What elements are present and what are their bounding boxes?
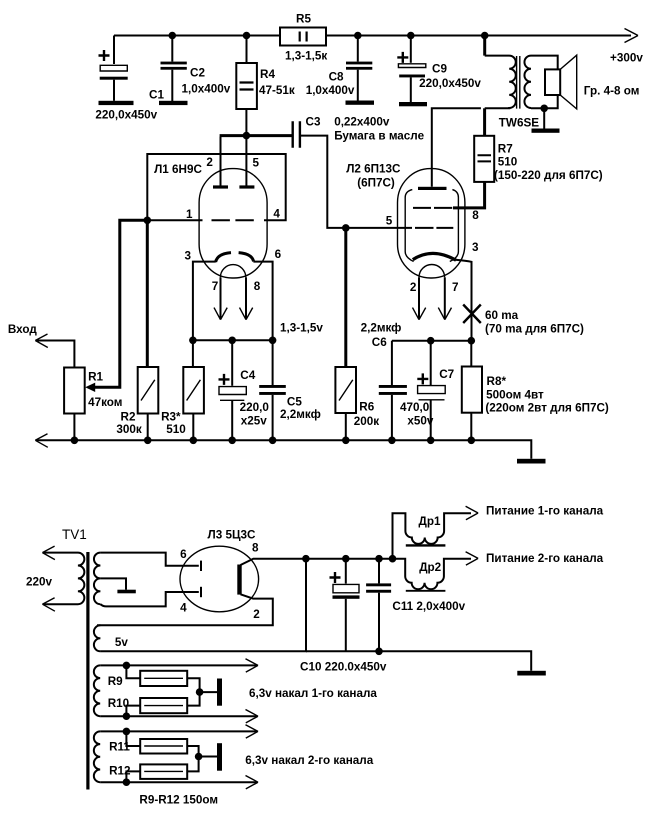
heater pin 7 arrow (Л2) bbox=[444, 277, 446, 318]
choke Др2 core bbox=[406, 590, 446, 592]
svg-text:R6: R6 bbox=[359, 401, 374, 414]
svg-text:x25v: x25v bbox=[241, 415, 268, 428]
node: bus / C7 bbox=[427, 337, 435, 345]
ground (C8) bbox=[346, 101, 375, 105]
svg-text:6: 6 bbox=[275, 248, 282, 261]
transformer TV1 heater winding 2 bbox=[94, 731, 100, 782]
ground (C9) bbox=[399, 102, 427, 106]
capacitor C2 bbox=[171, 36, 173, 62]
svg-text:7: 7 bbox=[212, 280, 219, 293]
node: lower rail / C11 bbox=[375, 648, 383, 656]
node: rail / C4 bbox=[228, 437, 236, 445]
svg-text:R2: R2 bbox=[121, 411, 136, 424]
node: bus / chokes bbox=[389, 555, 397, 563]
capacitor C3 bbox=[220, 134, 292, 137]
wire: heater1 top bbox=[100, 664, 257, 666]
svg-text:2: 2 bbox=[410, 281, 417, 294]
svg-text:470,0: 470,0 bbox=[400, 401, 430, 414]
resistor R5 bbox=[280, 28, 326, 46]
node: rail / R6 bbox=[342, 437, 350, 445]
svg-text:R5: R5 bbox=[296, 12, 311, 25]
svg-text:C11 2,0x400v: C11 2,0x400v bbox=[392, 600, 465, 613]
wire: HV top to pin 6 bbox=[100, 553, 198, 566]
svg-text:С6: С6 bbox=[372, 336, 387, 349]
capacitor C8 bbox=[357, 36, 359, 62]
svg-text:220v: 220v bbox=[26, 576, 53, 589]
capacitor C7 bbox=[430, 341, 432, 386]
ground (speaker) bbox=[532, 129, 560, 133]
tube U2: Л2 6П13С envelope bbox=[398, 169, 465, 278]
wire: cathode bus of Л2 bbox=[392, 340, 472, 342]
svg-text:Л1 6Н9С: Л1 6Н9С bbox=[154, 163, 202, 176]
arrow: Питание 2-го канала bbox=[466, 552, 479, 565]
choke Др1 bbox=[393, 513, 472, 558]
svg-text:R12: R12 bbox=[109, 765, 131, 778]
beam plate left (Л2) bbox=[405, 190, 413, 262]
node: bus / C11 bbox=[375, 555, 383, 563]
speaker Гр. 4-8 ом bbox=[545, 69, 560, 95]
input arrow bbox=[35, 334, 48, 348]
heater pin 7 arrow bbox=[220, 277, 222, 318]
svg-text:8: 8 bbox=[472, 209, 479, 222]
cathode left (Л1) bbox=[216, 253, 231, 262]
wire: secondary top to speaker bbox=[531, 56, 558, 70]
resistor R2 bbox=[146, 220, 149, 367]
svg-text:1,3-1,5v: 1,3-1,5v bbox=[280, 322, 323, 335]
wire: pin 1 grid bbox=[147, 219, 202, 221]
node: heater1 top / R9 bbox=[123, 662, 131, 670]
svg-text:Др1: Др1 bbox=[419, 515, 441, 528]
heater pin 8 arrow bbox=[245, 277, 247, 318]
primary arrow top bbox=[42, 546, 55, 560]
svg-text:2,2мкф: 2,2мкф bbox=[280, 408, 321, 421]
svg-text:5v: 5v bbox=[115, 636, 129, 649]
svg-text:C2: C2 bbox=[190, 66, 205, 79]
transformer TV1 core bbox=[86, 552, 89, 790]
node: R4 / anode wire bbox=[243, 132, 251, 140]
tube U1: Л1 6Н9С envelope bbox=[199, 169, 267, 278]
primary arrow bottom bbox=[42, 598, 55, 612]
svg-text:6: 6 bbox=[180, 548, 187, 561]
resistor R10 bbox=[126, 706, 140, 717]
svg-text:6,3v накал 2-го канала: 6,3v накал 2-го канала bbox=[245, 754, 373, 767]
HV winding center tap bbox=[100, 578, 126, 589]
svg-text:3: 3 bbox=[185, 249, 192, 262]
R1 wiper arrow wire bbox=[94, 220, 145, 387]
capacitor C10 bbox=[345, 559, 347, 584]
svg-text:1: 1 bbox=[186, 208, 193, 221]
ground (lower rail) bbox=[517, 671, 546, 676]
wire: R11/R12 join to chassis bbox=[187, 746, 217, 771]
wire: R9/R10 join to chassis bbox=[187, 678, 217, 705]
node: top rail / R4 bbox=[243, 32, 251, 40]
cathode (Л2) bbox=[413, 253, 456, 260]
svg-text:200к: 200к bbox=[354, 415, 380, 428]
screen grid dashes pin 8 (Л2) bbox=[413, 207, 452, 209]
transformer TV1 primary 220v winding bbox=[44, 553, 85, 605]
wire: anode of Л2 to transformer bbox=[432, 108, 481, 187]
wire: heater2 top bbox=[100, 730, 257, 732]
transformer TW6SE primary winding bbox=[483, 36, 486, 56]
transformer TV1 HV secondary winding bbox=[94, 553, 100, 605]
svg-text:500ом 4вт: 500ом 4вт bbox=[486, 388, 544, 401]
resistor R3 bbox=[192, 340, 194, 367]
svg-text:R9: R9 bbox=[108, 675, 123, 688]
node: rail / R1 bbox=[71, 437, 79, 445]
svg-text:R1: R1 bbox=[88, 370, 103, 383]
svg-text:8: 8 bbox=[252, 542, 259, 555]
svg-text:7: 7 bbox=[452, 281, 459, 294]
wire: heater2 bottom bbox=[100, 781, 257, 783]
svg-text:R7: R7 bbox=[498, 142, 513, 155]
svg-text:510: 510 bbox=[166, 423, 186, 436]
choke Др2 bbox=[393, 559, 472, 590]
svg-text:4: 4 bbox=[180, 602, 187, 615]
heater dome (Л2) bbox=[419, 264, 445, 277]
wire: 5v bottom to HV bus bbox=[100, 562, 306, 651]
capacitor C5 bbox=[272, 340, 274, 385]
resistor R8 bbox=[470, 341, 472, 367]
svg-text:C10 220.0x450v: C10 220.0x450v bbox=[300, 661, 387, 674]
node: rail / R8 bbox=[468, 437, 476, 445]
+300v supply arrow bbox=[625, 29, 639, 43]
svg-text:Вход: Вход bbox=[8, 323, 37, 336]
wire: pin 3 cathode bbox=[193, 262, 216, 341]
capacitor C9 bbox=[410, 36, 412, 63]
arrow: Питание 1-го канала bbox=[466, 506, 479, 519]
node: rail / C5 bbox=[269, 437, 277, 445]
svg-text:R10: R10 bbox=[108, 697, 130, 710]
node: rail / R3 bbox=[190, 437, 198, 445]
svg-text:R3*: R3* bbox=[161, 411, 181, 424]
svg-text:300к: 300к bbox=[116, 423, 142, 436]
svg-text:1,3-1,5к: 1,3-1,5к bbox=[285, 50, 327, 63]
wire: pin 8 cathode to bus bbox=[241, 559, 393, 565]
cathode bar (Л3) bbox=[237, 565, 241, 595]
svg-text:R8*: R8* bbox=[487, 375, 507, 388]
svg-text:TW6SE: TW6SE bbox=[499, 117, 539, 130]
svg-text:6,3v накал 1-го канала: 6,3v накал 1-го канала bbox=[249, 687, 377, 700]
wire: pin 3 cathode of Л2 bbox=[456, 260, 472, 341]
node: secondary bottom / ground bbox=[540, 105, 548, 113]
svg-text:Л3 5Ц3С: Л3 5Ц3С bbox=[208, 528, 256, 541]
svg-text:4: 4 bbox=[273, 208, 280, 221]
capacitor C4 bbox=[231, 340, 233, 386]
anode lead pin 2 (Л1) bbox=[220, 137, 222, 187]
chassis bar (heater 2) bbox=[217, 743, 222, 771]
wire: upper ground rail bbox=[37, 440, 532, 459]
svg-text:5: 5 bbox=[386, 214, 393, 227]
wire: pin 6 cathode bbox=[253, 262, 272, 341]
svg-text:C8: C8 bbox=[329, 70, 344, 83]
heater pin 2 arrow (Л2) bbox=[418, 277, 420, 318]
capacitor C11 bbox=[378, 559, 380, 584]
heater dome (Л1) bbox=[220, 265, 245, 278]
wire: HV bottom to pin 4 bbox=[100, 592, 198, 606]
svg-text:Др2: Др2 bbox=[419, 561, 441, 574]
node: rail / R2 bbox=[144, 437, 152, 445]
capacitor C6 bbox=[391, 341, 393, 385]
svg-text:1,0x400v: 1,0x400v bbox=[182, 82, 231, 95]
wire: grid tie pins 1-4 over tube bbox=[147, 154, 285, 220]
svg-text:5: 5 bbox=[253, 157, 260, 170]
beam plate right (Л2) bbox=[450, 190, 459, 262]
svg-text:Л2 6П13С: Л2 6П13С bbox=[346, 163, 401, 176]
svg-text:+300v: +300v bbox=[610, 52, 643, 65]
svg-text:47-51к: 47-51к bbox=[259, 84, 295, 97]
transformer TV1 heater winding 1 bbox=[94, 665, 100, 716]
cathode right (Л1) bbox=[239, 253, 254, 262]
resistor R6 bbox=[344, 228, 347, 367]
svg-text:C5: C5 bbox=[287, 395, 302, 408]
node: heater2 bottom / R12 bbox=[123, 778, 131, 786]
chassis bar (heater 1) bbox=[217, 679, 222, 706]
node: grid of Л2 / R6 bbox=[342, 224, 350, 232]
svg-text:(6П7С): (6П7С) bbox=[357, 177, 395, 190]
svg-text:R11: R11 bbox=[109, 741, 130, 754]
node: rail / C6 bbox=[388, 437, 396, 445]
node: top rail / C8 bbox=[354, 32, 362, 40]
svg-text:8: 8 bbox=[254, 280, 261, 293]
svg-text:С7: С7 bbox=[439, 368, 454, 381]
transformer TV1 5v winding bbox=[94, 625, 101, 651]
svg-text:510: 510 bbox=[498, 155, 518, 168]
svg-text:3: 3 bbox=[472, 241, 479, 254]
anode plate pin 4 (Л3) bbox=[200, 587, 202, 597]
svg-text:60 ma: 60 ma bbox=[485, 309, 519, 322]
node: heater1 bottom / R10 bbox=[123, 712, 131, 720]
transformer TW6SE secondary winding bbox=[524, 56, 531, 108]
svg-text:Гр. 4-8 ом: Гр. 4-8 ом bbox=[584, 85, 640, 98]
svg-text:Питание 1-го канала: Питание 1-го канала bbox=[486, 505, 604, 518]
svg-text:C3: C3 bbox=[306, 116, 321, 129]
current marker X 60 ma bbox=[463, 305, 481, 324]
ground (upper rail) bbox=[517, 459, 546, 464]
wire: C3 to grid of Л2 bbox=[301, 136, 412, 228]
transformer TW6SE core bbox=[517, 56, 520, 109]
capacitor C1 bbox=[113, 36, 115, 65]
node: bus / R8 bbox=[468, 337, 476, 345]
svg-text:Бумага в масле: Бумага в масле bbox=[334, 129, 424, 142]
wire: lower ground rail bbox=[306, 651, 531, 671]
wire: +300v top rail bbox=[114, 35, 631, 37]
potentiometer R1 bbox=[64, 368, 85, 414]
anode plates (Л1) bbox=[213, 185, 228, 188]
wire: cathode bus of Л1 bbox=[193, 339, 273, 341]
svg-text:(70 ma для 6П7С): (70 ma для 6П7С) bbox=[485, 322, 584, 335]
ground rail arrow bbox=[35, 434, 48, 448]
svg-text:2: 2 bbox=[253, 608, 260, 621]
ground (center tap) bbox=[117, 590, 135, 594]
wire: input to R1 bbox=[37, 341, 75, 368]
node: bus / C10 bbox=[342, 555, 350, 563]
choke Др1 core bbox=[406, 544, 446, 546]
resistor R11 bbox=[126, 731, 140, 746]
node: top rail / C2 bbox=[169, 32, 177, 40]
resistor R9 bbox=[126, 665, 140, 678]
node: R11/R12 bbox=[195, 753, 203, 761]
node: rail / C7 bbox=[427, 437, 435, 445]
node: cathode bus / R3 bbox=[189, 337, 197, 345]
grid dashes (Л1) bbox=[212, 219, 254, 221]
svg-text:0,22x400v: 0,22x400v bbox=[334, 116, 390, 129]
wire: heater1 bottom bbox=[100, 715, 257, 717]
svg-text:C4: C4 bbox=[240, 369, 255, 382]
tube U3: Л3 5Ц3С envelope bbox=[180, 546, 259, 612]
svg-text:220,0x450v: 220,0x450v bbox=[95, 109, 157, 122]
resistor R4 bbox=[246, 36, 248, 64]
svg-text:47ком: 47ком bbox=[88, 396, 122, 409]
svg-text:2: 2 bbox=[206, 156, 213, 169]
node: grid junction / R2 / wiper bbox=[144, 217, 152, 225]
svg-text:TV1: TV1 bbox=[62, 527, 87, 542]
control grid dashes (Л2) bbox=[415, 227, 453, 229]
svg-text:2,2мкф: 2,2мкф bbox=[361, 322, 402, 335]
ground (C2) bbox=[159, 101, 188, 105]
svg-text:220,0x450v: 220,0x450v bbox=[419, 77, 481, 90]
svg-text:C1: C1 bbox=[149, 89, 164, 102]
node: cathode bus / C4 bbox=[228, 337, 236, 345]
node: cathode bus / C5 bbox=[269, 337, 277, 345]
resistor R7 bbox=[483, 108, 486, 136]
resistor R12 bbox=[126, 771, 140, 782]
svg-text:R9-R12 150ом: R9-R12 150ом bbox=[139, 794, 218, 807]
node: bus / 5v return bbox=[302, 555, 310, 563]
wire: pin 2 filament to 5v winding bbox=[97, 594, 273, 625]
svg-text:C9: C9 bbox=[432, 63, 447, 76]
anode plate pin 6 (Л3) bbox=[200, 561, 202, 571]
node: top rail / C9 bbox=[407, 32, 415, 40]
ground (C1) bbox=[99, 101, 134, 105]
node: heater2 top / R11 bbox=[123, 728, 131, 736]
svg-text:x50v: x50v bbox=[407, 415, 434, 428]
node: top rail / output transformer primary bbox=[481, 32, 489, 40]
svg-text:1,0x400v: 1,0x400v bbox=[306, 84, 355, 97]
anode lead pin 5 (Л1) / R4 lead bbox=[245, 109, 247, 187]
svg-text:(150-220 для 6П7С): (150-220 для 6П7С) bbox=[494, 169, 603, 182]
svg-text:R4: R4 bbox=[260, 68, 275, 81]
anode plate (Л2) bbox=[418, 187, 447, 190]
svg-text:(220ом 2вт для 6П7С): (220ом 2вт для 6П7С) bbox=[485, 402, 609, 415]
svg-text:Питание 2-го канала: Питание 2-го канала bbox=[486, 552, 604, 565]
wire: secondary bottom to speaker bbox=[531, 95, 558, 108]
node: R9/R10 bbox=[196, 688, 204, 696]
svg-text:220,0: 220,0 bbox=[240, 401, 270, 414]
